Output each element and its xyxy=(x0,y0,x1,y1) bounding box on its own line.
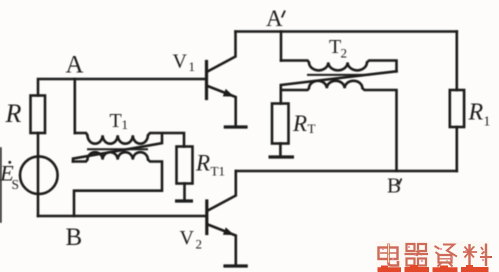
ground of RT xyxy=(269,155,295,158)
wire RT1 to ground xyxy=(183,184,186,200)
wire R1 to B' rail xyxy=(455,127,458,171)
transistor V2 emitter xyxy=(208,225,236,265)
transformer T1 primary winding xyxy=(75,133,184,147)
char liao xyxy=(463,244,492,267)
transformer T1 core xyxy=(88,148,147,150)
wire A' rail to T2 xyxy=(280,32,283,61)
svg-text:1: 1 xyxy=(189,59,196,74)
transistor V1 collector xyxy=(208,32,236,72)
svg-text:1: 1 xyxy=(122,117,129,132)
wire RT to ground xyxy=(279,144,282,156)
wire B rail xyxy=(38,215,205,218)
transformer T2 core xyxy=(308,74,368,76)
transistor V2 collector xyxy=(208,171,236,211)
transistor V2 emitter arrow xyxy=(223,227,234,235)
svg-text:2: 2 xyxy=(196,237,203,252)
svg-text:A: A xyxy=(266,6,283,31)
ground of RT1 xyxy=(175,199,193,202)
svg-text:B: B xyxy=(387,174,401,198)
char zi xyxy=(435,245,458,267)
svg-text:T: T xyxy=(308,121,316,136)
svg-text:A: A xyxy=(66,52,84,79)
svg-text:2: 2 xyxy=(341,46,348,61)
transformer T2 series link diagonal xyxy=(281,71,397,90)
svg-text:S: S xyxy=(12,177,20,192)
transistor V2 base bar xyxy=(205,201,208,234)
svg-text:T: T xyxy=(329,36,341,58)
svg-text:1: 1 xyxy=(484,114,491,129)
wire node A down to T1 xyxy=(74,79,77,133)
wire B' bottom rail xyxy=(236,170,457,173)
watermark line 2 partial xyxy=(378,265,489,272)
char qi xyxy=(405,244,429,266)
transformer T2 secondary winding xyxy=(281,81,397,171)
svg-text:V: V xyxy=(180,227,195,249)
svg-text:B: B xyxy=(66,224,83,251)
ground of V2 xyxy=(223,264,247,267)
wire node A horizontal xyxy=(38,79,205,96)
watermark texture overlay xyxy=(376,241,490,267)
char dian xyxy=(379,244,399,266)
watermark line 1: 电器资料 xyxy=(379,244,493,267)
wire A' top rail xyxy=(236,30,457,33)
svg-text:R: R xyxy=(5,99,22,128)
wire R to source to B rail xyxy=(37,133,40,216)
resistor R1 xyxy=(450,90,464,127)
transistor V1 emitter arrow xyxy=(223,89,234,97)
svg-text:R: R xyxy=(468,100,484,126)
transformer T1 series link diagonal xyxy=(73,134,162,162)
svg-text:V: V xyxy=(173,51,188,73)
transistor V1 emitter xyxy=(208,86,236,126)
svg-text:T1: T1 xyxy=(211,164,225,179)
svg-text:R: R xyxy=(195,151,210,176)
resistor RT1 xyxy=(177,147,193,184)
edge artifact line xyxy=(0,148,2,222)
transistor V1 base bar xyxy=(205,62,208,99)
transformer T1 secondary winding xyxy=(73,152,162,216)
resistor R xyxy=(31,96,46,134)
source ES circle xyxy=(20,156,58,194)
svg-text:R: R xyxy=(292,111,307,136)
svg-text:T: T xyxy=(110,110,122,132)
wire T2 to RT xyxy=(279,90,282,104)
transformer T2 primary winding xyxy=(281,61,397,72)
resistor RT xyxy=(272,104,289,144)
wire A' rail to R1 xyxy=(455,32,458,91)
ground of V1 xyxy=(224,125,248,128)
